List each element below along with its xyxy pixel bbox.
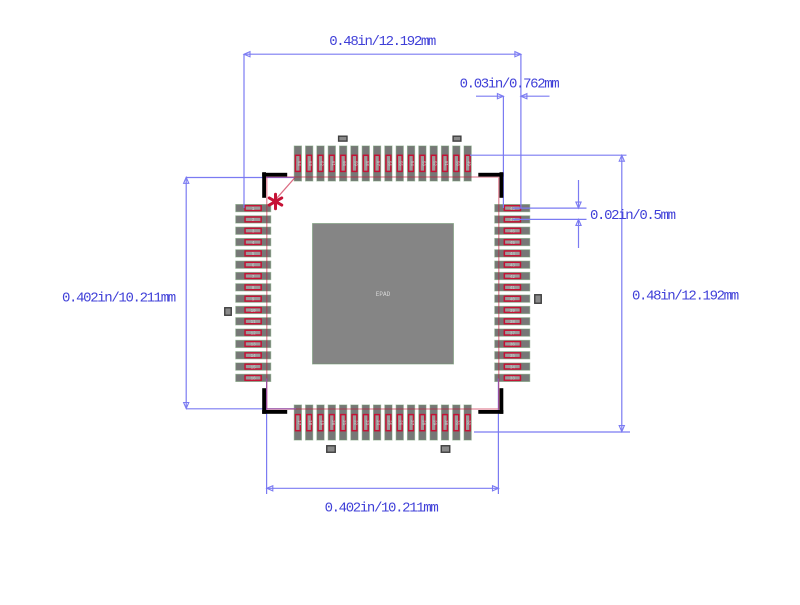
paste mark top-right square [453,136,461,141]
pad 21 (pin 21, bottom row) [340,405,347,440]
svg-text:31: 31 [454,420,458,426]
pad 16 (pin 16, left row) [236,374,271,381]
pad 1 (pin 1, left row) [236,205,271,212]
svg-text:50: 50 [454,161,458,167]
svg-text:52: 52 [432,161,436,167]
pad 43 (pin 43, right row) [495,261,530,268]
svg-text:60: 60 [341,161,345,167]
pad 10 (pin 10, left row) [236,306,271,313]
svg-text:39: 39 [510,310,516,314]
pad 45 (pin 45, right row) [495,238,530,245]
pad 29 (pin 29, bottom row) [430,405,437,440]
pad 23 (pin 23, bottom row) [362,405,369,440]
pad 47 (pin 47, right row) [495,216,530,223]
svg-text:56: 56 [386,161,390,167]
svg-text:41: 41 [510,287,516,291]
svg-text:54: 54 [409,161,413,167]
pad 27 (pin 27, bottom row) [407,405,414,440]
pad 35 (pin 35, right row) [495,352,530,359]
svg-text:EPAD: EPAD [376,291,391,298]
dimension 0.03in/0.762mm (lead foot) [460,77,560,209]
corner bracket top-right [478,172,503,198]
svg-text:12: 12 [251,332,257,336]
svg-text:16: 16 [251,378,257,382]
pad 17 (pin 17, bottom row) [294,405,301,440]
pin 1 leader line [270,178,294,206]
svg-text:10: 10 [251,310,257,314]
pad 37 (pin 37, right row) [495,329,530,336]
corner bracket bottom-left [262,388,287,414]
pad 34 (pin 34, right row) [495,363,530,370]
pad 40 (pin 40, right row) [495,295,530,302]
pad 4 (pin 4, left row) [236,238,271,245]
svg-text:43: 43 [510,265,516,269]
corner bracket top-left [262,172,287,198]
pad 20 (pin 20, bottom row) [328,405,335,440]
pad 33 (pin 33, right row) [495,374,530,381]
svg-text:44: 44 [510,253,516,257]
svg-text:0.48in/12.192mm: 0.48in/12.192mm [632,289,739,305]
pad 24 (pin 24, bottom row) [373,405,380,440]
svg-text:33: 33 [510,378,516,382]
svg-text:23: 23 [364,420,368,426]
svg-text:62: 62 [318,161,322,167]
svg-text:59: 59 [352,161,356,167]
svg-text:53: 53 [420,161,424,167]
pad 11 (pin 11, left row) [236,318,271,325]
pad 64 (pin 64, top row) [294,146,301,181]
pad 28 (pin 28, bottom row) [419,405,426,440]
svg-text:24: 24 [375,420,379,426]
pad 44 (pin 44, right row) [495,250,530,257]
pad 62 (pin 62, top row) [317,146,324,181]
svg-text:0.03in/0.762mm: 0.03in/0.762mm [460,77,560,93]
pad 5 (pin 5, left row) [236,250,271,257]
pad 6 (pin 6, left row) [236,261,271,268]
svg-text:18: 18 [307,420,311,426]
svg-text:46: 46 [510,231,516,235]
dimension top 0.48in/12.192mm [244,34,521,208]
pin 1 marker asterisk [269,194,281,208]
pad 55 (pin 55, top row) [396,146,403,181]
svg-text:45: 45 [510,242,516,246]
pad 41 (pin 41, right row) [495,284,530,291]
pad 32 (pin 32, bottom row) [464,405,471,440]
pad 22 (pin 22, bottom row) [351,405,358,440]
paste mark bottom-right square [441,446,450,453]
pad 30 (pin 30, bottom row) [441,405,448,440]
pad 57 (pin 57, top row) [373,146,380,181]
pad 52 (pin 52, top row) [430,146,437,181]
svg-text:21: 21 [341,420,345,426]
svg-text:30: 30 [443,420,447,426]
svg-text:0.402in/10.211mm: 0.402in/10.211mm [62,291,176,307]
pad 50 (pin 50, top row) [453,146,460,181]
pad 36 (pin 36, right row) [495,340,530,347]
pad 42 (pin 42, right row) [495,272,530,279]
pad 60 (pin 60, top row) [340,146,347,181]
svg-text:25: 25 [386,420,390,426]
pad 53 (pin 53, top row) [419,146,426,181]
svg-text:61: 61 [330,161,334,167]
paste mark right square [535,295,542,304]
svg-text:28: 28 [420,420,424,426]
svg-text:0.402in/10.211mm: 0.402in/10.211mm [325,501,439,517]
svg-text:13: 13 [251,344,257,348]
component body outline (silkscreen) [267,177,499,409]
pad 8 (pin 8, left row) [236,284,271,291]
svg-text:49: 49 [466,161,470,167]
pad 25 (pin 25, bottom row) [385,405,392,440]
pad 26 (pin 26, bottom row) [396,405,403,440]
pad 61 (pin 61, top row) [328,146,335,181]
svg-text:27: 27 [409,420,413,426]
pad 38 (pin 38, right row) [495,318,530,325]
pad 18 (pin 18, bottom row) [306,405,313,440]
pad 31 (pin 31, bottom row) [453,405,460,440]
svg-text:11: 11 [251,321,257,325]
pad 63 (pin 63, top row) [306,146,313,181]
paste mark top-left square [339,136,347,141]
pad 13 (pin 13, left row) [236,340,271,347]
svg-text:51: 51 [443,161,447,167]
svg-text:26: 26 [398,420,402,426]
pad 14 (pin 14, left row) [236,352,271,359]
dimension bottom 0.402in/10.211mm [267,379,499,517]
pad 58 (pin 58, top row) [362,146,369,181]
svg-text:15: 15 [251,366,257,370]
svg-text:32: 32 [466,420,470,426]
svg-text:40: 40 [510,298,516,302]
svg-text:29: 29 [432,420,436,426]
svg-text:55: 55 [398,161,402,167]
pad 9 (pin 9, left row) [236,295,271,302]
svg-text:42: 42 [510,276,516,280]
pad 15 (pin 15, left row) [236,363,271,370]
svg-text:0.48in/12.192mm: 0.48in/12.192mm [329,34,436,50]
svg-text:36: 36 [510,344,516,348]
pad 12 (pin 12, left row) [236,329,271,336]
paste mark left square [225,308,232,316]
svg-text:37: 37 [510,332,516,336]
svg-text:19: 19 [318,420,322,426]
pad 19 (pin 19, bottom row) [317,405,324,440]
svg-text:22: 22 [352,420,356,426]
svg-text:14: 14 [251,355,257,359]
svg-text:35: 35 [510,355,516,359]
svg-text:63: 63 [307,161,311,167]
svg-text:64: 64 [296,161,300,167]
pad 54 (pin 54, top row) [407,146,414,181]
EPAD exposed thermal pad [313,224,454,365]
svg-text:20: 20 [330,420,334,426]
dimension 0.02in/0.5mm (pitch) [513,180,676,248]
pad 46 (pin 46, right row) [495,227,530,234]
svg-text:57: 57 [375,161,379,167]
svg-text:34: 34 [510,366,516,370]
svg-text:38: 38 [510,321,516,325]
dimension right 0.48in/12.192mm (vertical) [470,155,739,432]
pad 59 (pin 59, top row) [351,146,358,181]
pad 48 (pin 48, right row) [495,205,530,212]
pad 51 (pin 51, top row) [441,146,448,181]
svg-text:0.02in/0.5mm: 0.02in/0.5mm [590,208,676,224]
pad 3 (pin 3, left row) [236,227,271,234]
pad 49 (pin 49, top row) [464,146,471,181]
pad 7 (pin 7, left row) [236,272,271,279]
pad 39 (pin 39, right row) [495,306,530,313]
paste mark bottom-left square [327,446,336,453]
pad 56 (pin 56, top row) [385,146,392,181]
pad 2 (pin 2, left row) [236,216,271,223]
corner bracket bottom-right [478,388,503,414]
dimension left 0.402in/10.211mm (vertical) [62,177,296,408]
svg-text:58: 58 [364,161,368,167]
svg-text:17: 17 [296,420,300,426]
